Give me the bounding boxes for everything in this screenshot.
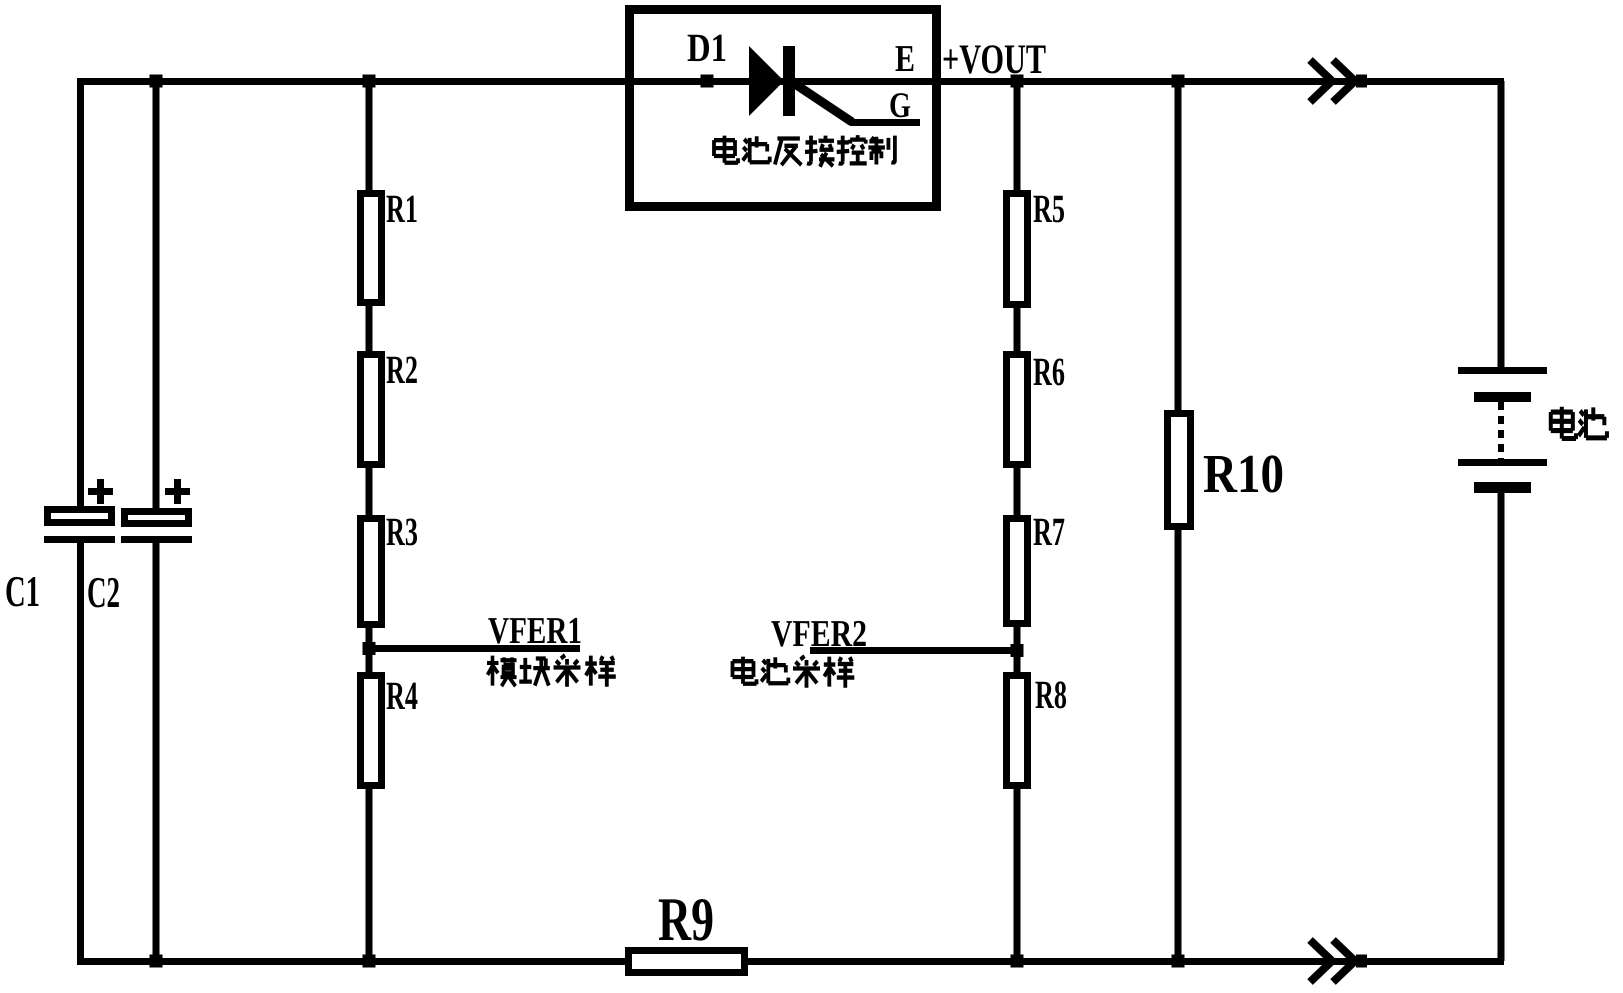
svg-text:R5: R5: [1033, 186, 1065, 231]
svg-text:C1: C1: [5, 567, 40, 616]
svg-text:+VOUT: +VOUT: [942, 37, 1046, 83]
svg-text:R4: R4: [386, 673, 418, 718]
svg-text:C2: C2: [87, 568, 120, 617]
svg-text:R10: R10: [1203, 443, 1284, 504]
svg-text:R7: R7: [1033, 509, 1065, 554]
svg-text:R1: R1: [386, 186, 418, 231]
svg-text:R8: R8: [1035, 672, 1067, 717]
svg-text:R3: R3: [386, 509, 418, 554]
svg-text:D1: D1: [687, 25, 727, 70]
svg-text:VFER1: VFER1: [488, 610, 582, 652]
svg-text:VFER2: VFER2: [771, 613, 867, 655]
svg-text:R6: R6: [1033, 349, 1065, 394]
svg-text:E: E: [895, 38, 915, 80]
svg-text:G: G: [889, 85, 911, 125]
svg-text:R2: R2: [386, 347, 418, 392]
svg-text:R9: R9: [658, 886, 714, 954]
